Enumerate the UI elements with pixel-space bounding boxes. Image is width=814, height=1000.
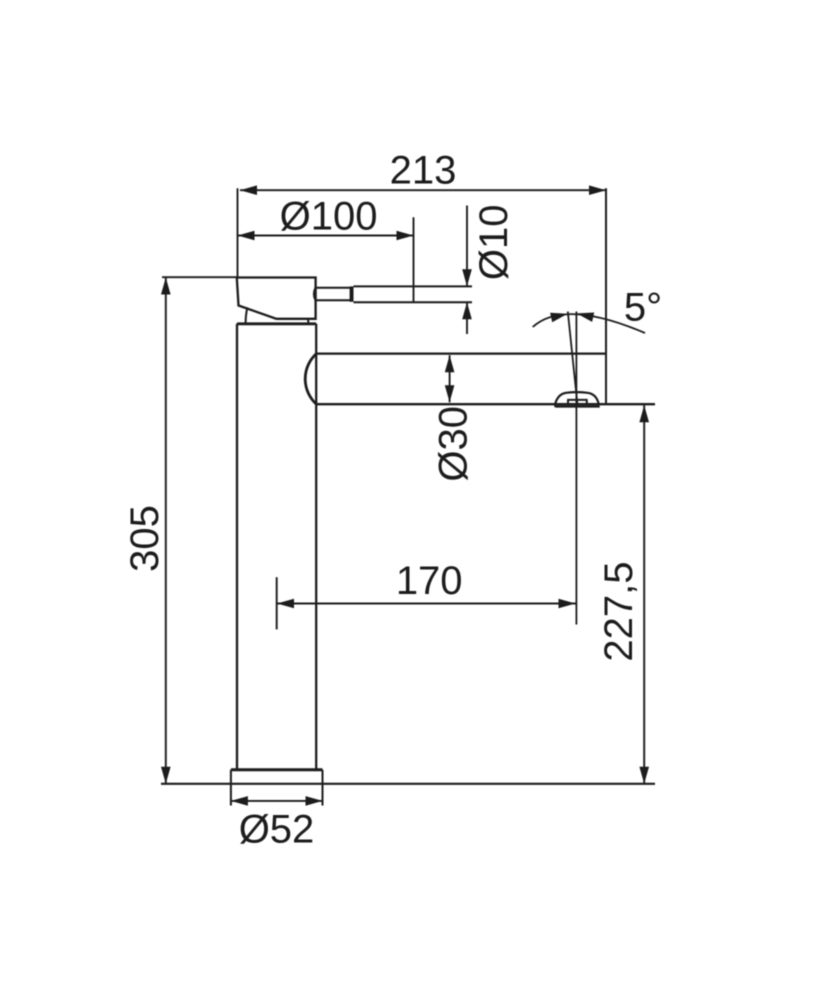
svg-text:213: 213 <box>390 149 457 193</box>
svg-text:Ø100: Ø100 <box>280 195 378 239</box>
svg-text:Ø10: Ø10 <box>472 204 516 280</box>
svg-text:305: 305 <box>123 505 167 572</box>
svg-text:5°: 5° <box>624 285 662 329</box>
svg-text:Ø52: Ø52 <box>239 807 315 851</box>
svg-text:227,5: 227,5 <box>597 561 641 661</box>
svg-text:170: 170 <box>396 559 463 603</box>
svg-text:Ø30: Ø30 <box>431 406 475 482</box>
